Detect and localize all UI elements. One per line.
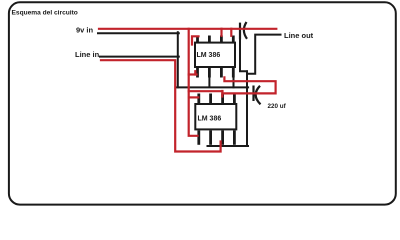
svg-text:Line in: Line in	[75, 50, 100, 59]
svg-text:Esquema del circuito: Esquema del circuito	[12, 9, 78, 16]
svg-text:LM 386: LM 386	[197, 52, 221, 59]
svg-text:220 uf: 220 uf	[268, 103, 287, 110]
svg-text:9v in: 9v in	[76, 26, 94, 35]
svg-text:Line out: Line out	[284, 31, 314, 40]
svg-text:LM 386: LM 386	[198, 116, 222, 123]
